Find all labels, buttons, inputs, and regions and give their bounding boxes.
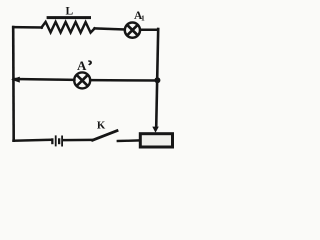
battery cell plate 4 (long) [61, 136, 63, 147]
wire: switch to rheostat [118, 139, 140, 142]
battery cell plate 2 (long) [55, 135, 57, 146]
rheostat slider arrow head [152, 127, 159, 133]
inductor L core bar [47, 16, 91, 19]
wire: left vertical [12, 27, 15, 141]
battery cell plate 1 (short) [51, 138, 53, 144]
battery cell plate 3 (short) [58, 138, 60, 144]
wire: bottom-left horizontal [14, 139, 51, 142]
lamp A2 cross [78, 76, 87, 85]
node arrow at left junction of middle wire [11, 77, 20, 83]
lamp A1 cross [128, 26, 137, 35]
svg-text:1: 1 [141, 13, 145, 22]
wire: right vertical (arrow shaft to rheostat) [156, 29, 158, 128]
svg-text:A: A [77, 58, 87, 73]
rheostat R (slide-wire box) [140, 134, 172, 147]
wire: lamp A1 to top-right corner [140, 29, 158, 32]
wire: top-left horizontal segment [13, 26, 42, 29]
inductor L winding (zigzag) [42, 22, 95, 33]
wire: battery to switch [64, 139, 93, 142]
wire: zigzag to lamp A1 [95, 28, 124, 29]
label A2 prime mark [88, 60, 92, 65]
switch K blade [93, 131, 117, 141]
wire: middle horizontal, left segment [14, 78, 75, 81]
lamp A2 (circle) [74, 72, 90, 88]
junction: middle wire and right vertical [154, 77, 160, 83]
lamp A1 (circle) [125, 23, 140, 38]
wire: middle horizontal, right segment [90, 79, 157, 82]
svg-text:K: K [97, 120, 106, 132]
svg-text:L: L [66, 5, 74, 17]
